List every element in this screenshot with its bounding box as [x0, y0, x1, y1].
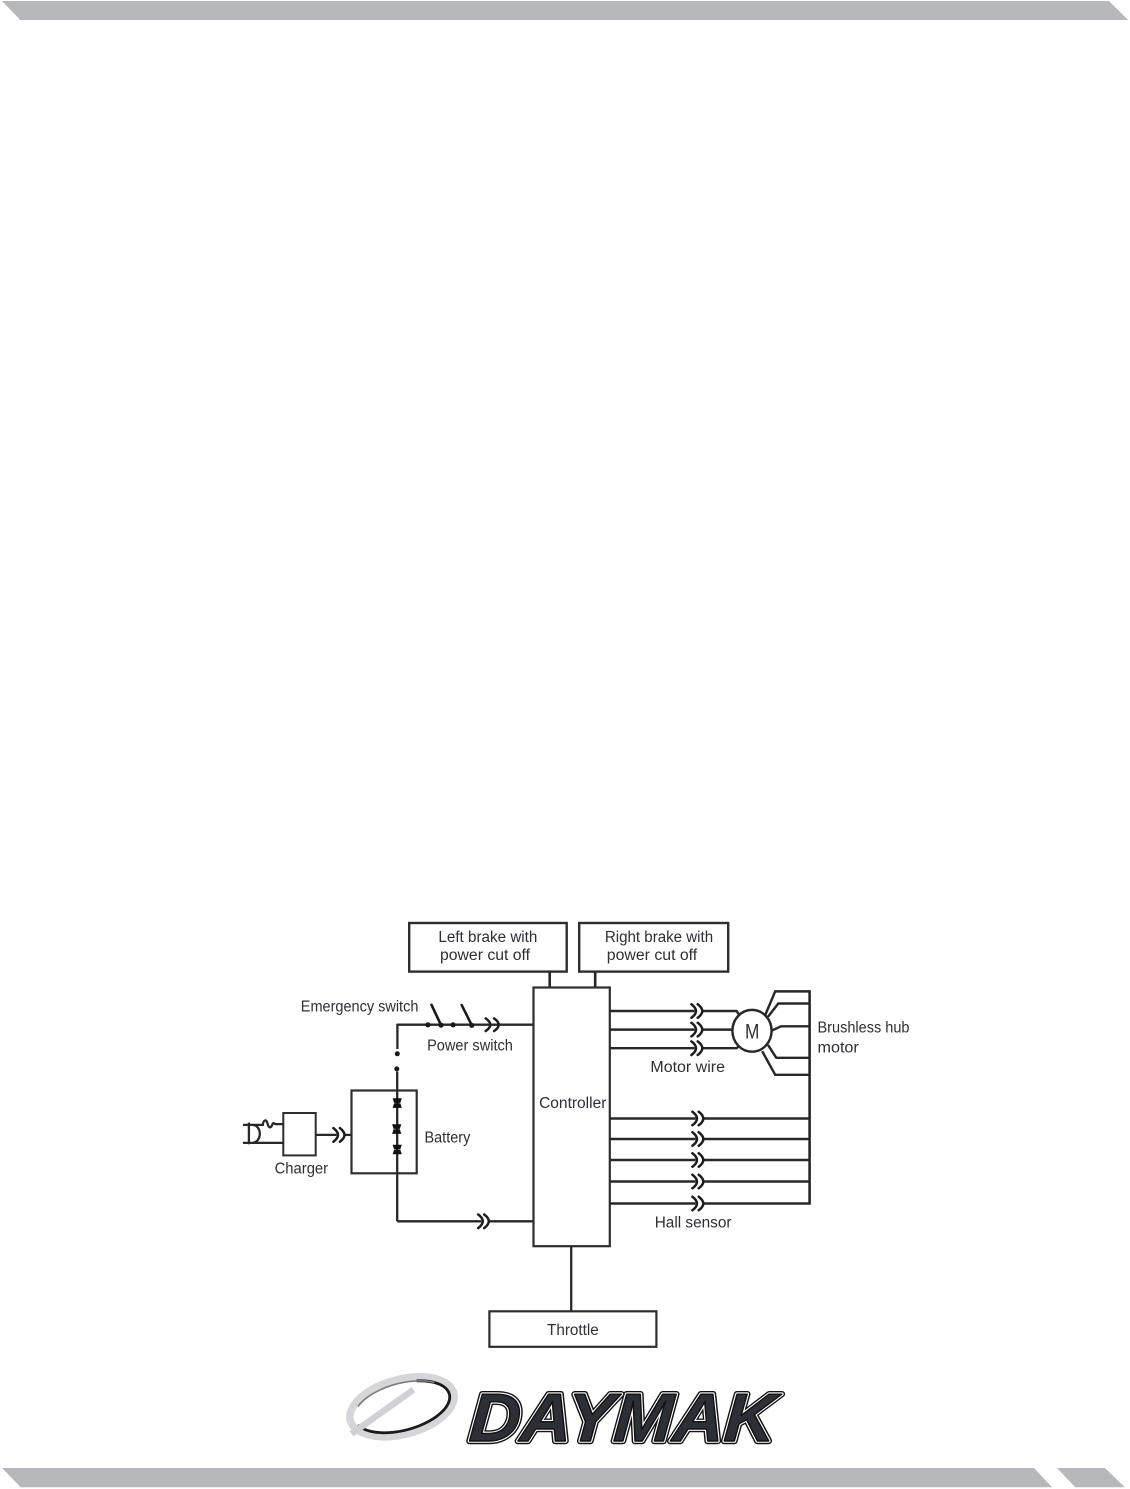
emergency switch S1 — [425, 1005, 443, 1028]
motor fan line 3 — [772, 1026, 810, 1030]
label: Brushless hub motor — [818, 1020, 910, 1057]
box: Throttle — [489, 1311, 656, 1347]
connector on hall wire 1 — [692, 1112, 703, 1126]
hall sensor wire 2 — [610, 1138, 696, 1140]
connector on motor wire 1 — [691, 1004, 702, 1018]
motor wire 3 — [610, 1047, 695, 1049]
wire: charger to battery (left segment) — [316, 1134, 337, 1136]
connector on motor wire 2 — [691, 1023, 702, 1037]
connector on hall wire 5 — [692, 1197, 703, 1211]
svg-text:Battery: Battery — [425, 1130, 471, 1147]
page frame bottom bevel bar — [2, 1468, 1052, 1487]
motor fan line 1 — [765, 991, 809, 1014]
wire: left brake lead to controller — [548, 972, 551, 988]
wire: vertical from emergency-switch corner — [396, 1024, 398, 1049]
motor fan line 5 — [762, 1051, 809, 1075]
connector on charger wire — [333, 1128, 344, 1142]
page frame top bevel bar — [2, 1, 1128, 20]
svg-text:Emergency switch: Emergency switch — [301, 999, 419, 1016]
node dot (dashed continuation) A — [395, 1051, 400, 1056]
svg-text:motor: motor — [818, 1039, 859, 1056]
battery cell fuse 2 — [392, 1124, 401, 1129]
wire: charger to battery (right segment) — [345, 1134, 352, 1136]
svg-text:Power switch: Power switch — [427, 1038, 513, 1055]
node dot (dashed continuation) B — [394, 1066, 399, 1071]
box: Battery — [352, 1091, 417, 1174]
svg-text:Throttle: Throttle — [547, 1322, 599, 1339]
svg-text:power cut off: power cut off — [440, 947, 531, 964]
connector on hall wire 2 — [692, 1132, 703, 1146]
wire: battery return bottom (left segment) — [397, 1220, 481, 1222]
svg-text:DAYMAK: DAYMAK — [467, 1380, 783, 1456]
battery cell fuse 1 — [393, 1098, 402, 1103]
Daymak wordmark — [467, 1380, 783, 1456]
box: Left brake with power cut off — [409, 923, 567, 972]
connector on top power wire — [486, 1018, 499, 1031]
hall sensor wire 5 — [610, 1202, 696, 1204]
wire: controller to throttle — [570, 1246, 572, 1311]
svg-text:Brushless hub: Brushless hub — [818, 1020, 910, 1037]
hall sensor wire 3 — [610, 1159, 696, 1161]
wire: top power wire to controller — [397, 1024, 533, 1026]
wire: battery return bottom (right segment) — [489, 1220, 534, 1222]
wire: right brake lead to controller — [594, 972, 597, 988]
motor fan line 2 — [768, 1004, 810, 1017]
motor fan line 4 — [768, 1045, 810, 1058]
box: Charger — [283, 1113, 315, 1155]
wire: plug cable with squiggle to charger — [249, 1120, 284, 1127]
wire: battery vertical feed (through battery box) — [396, 1072, 398, 1222]
battery cell fuse 3 — [393, 1145, 402, 1150]
connector on motor wire 3 — [691, 1041, 702, 1055]
power switch S2 — [451, 1005, 475, 1028]
svg-text:Controller: Controller — [539, 1095, 606, 1112]
svg-text:M: M — [745, 1021, 759, 1044]
svg-text:Right brake with: Right brake with — [605, 929, 713, 946]
box: Controller U1 — [534, 988, 610, 1247]
Daymak logo swoosh — [343, 1366, 461, 1447]
svg-text:Hall sensor: Hall sensor — [655, 1214, 732, 1231]
hall sensor wire 1 — [610, 1117, 696, 1119]
connector on bottom wire — [478, 1215, 489, 1229]
motor wire 1 — [610, 1010, 695, 1012]
page frame bottom-right corner bevel — [1057, 1468, 1125, 1487]
connector on hall wire 4 — [692, 1175, 703, 1189]
AC plug symbol — [243, 1123, 284, 1145]
motor bus vertical — [808, 990, 811, 1204]
motor M1 circle — [732, 1010, 771, 1052]
svg-text:Motor wire: Motor wire — [650, 1059, 725, 1076]
svg-text:Left brake with: Left brake with — [438, 929, 537, 946]
motor wire 2 — [610, 1028, 695, 1030]
svg-text:Charger: Charger — [275, 1161, 329, 1178]
hall sensor wire 4 — [610, 1180, 696, 1182]
svg-text:power cut off: power cut off — [607, 947, 698, 964]
box: Right brake with power cut off — [579, 923, 728, 972]
connector on hall wire 3 — [692, 1153, 703, 1167]
